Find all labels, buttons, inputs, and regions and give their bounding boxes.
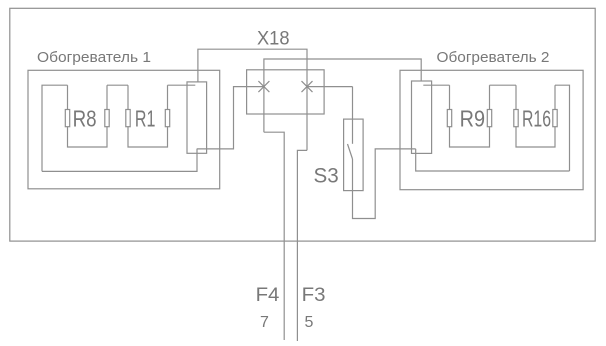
svg-text:7: 7 [260, 314, 269, 331]
svg-text:S3: S3 [314, 164, 339, 188]
wire H2 element top segment B [490, 84, 517, 86]
svg-text:Обогреватель 1: Обогреватель 1 [37, 49, 151, 66]
wire H1 resistor leads top [67, 85, 69, 109]
wire H1 element bottom U1 [68, 127, 108, 147]
wire H2 element bottom U2 [516, 127, 555, 147]
svg-text:R9: R9 [460, 105, 485, 131]
svg-text:X18: X18 [257, 28, 290, 49]
wire H1 return to X18 [197, 87, 264, 149]
node X18 contact 1 [258, 81, 269, 92]
wire H2 resistor leads top [449, 85, 451, 109]
wire H2 element bottom U1 [450, 127, 490, 147]
wire H1 feed from X18 [198, 49, 307, 150]
wire H2 element top segment A [423, 84, 449, 86]
resistor R8 [65, 110, 69, 127]
svg-text:F4: F4 [256, 285, 280, 306]
wire X18 contact1 to heater 2 feed [264, 59, 421, 132]
wire fuse F4 drop [264, 132, 284, 340]
svg-text:F3: F3 [302, 285, 326, 306]
node X18 contact 2 [302, 81, 313, 92]
border frame [10, 8, 595, 241]
svg-text:R8: R8 [73, 105, 97, 131]
heater 2 enclosure box [400, 70, 583, 189]
wire H2 bottom bus [416, 149, 570, 171]
wire H1 element bottom U2 [128, 127, 168, 147]
svg-text:5: 5 [305, 314, 314, 331]
wire S3 bottom to heater 2 [353, 149, 416, 219]
wire H1 element top segment C [168, 84, 196, 86]
resistor R16 [514, 110, 518, 127]
wire S3 top lead [352, 87, 354, 144]
wire fuse F3 drop [297, 150, 307, 341]
terminal block heater 1 [187, 82, 207, 153]
heater 1 enclosure box [28, 70, 220, 189]
resistor R9 [447, 110, 451, 127]
connector X18 box [247, 70, 325, 114]
wire H2 right element lead [555, 85, 570, 171]
svg-text:R16: R16 [522, 105, 551, 131]
wire X18 contact2 to switch S3 [307, 86, 353, 88]
wire H1 bottom bus [42, 149, 197, 172]
wire H1 left element lead [42, 85, 68, 171]
wire H1 element top segment B [107, 84, 128, 86]
svg-text:Обогреватель 2: Обогреватель 2 [437, 49, 550, 66]
switch S3 lever [348, 144, 353, 159]
svg-text:R1: R1 [135, 105, 156, 131]
terminal block heater 2 [412, 81, 432, 153]
resistor R1 [126, 110, 130, 127]
switch S3 body [344, 119, 364, 191]
